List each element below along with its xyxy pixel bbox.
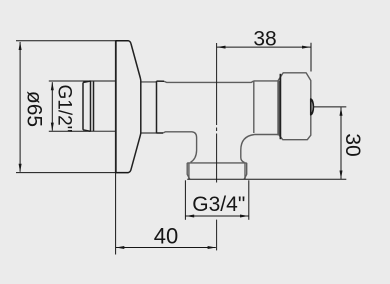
svg-text:30: 30 [341,133,364,156]
svg-text:G3/4": G3/4" [192,193,245,216]
svg-text:G1/2": G1/2" [53,85,74,133]
svg-text:38: 38 [253,28,276,51]
svg-text:ø65: ø65 [23,91,46,127]
svg-text:40: 40 [154,224,178,249]
